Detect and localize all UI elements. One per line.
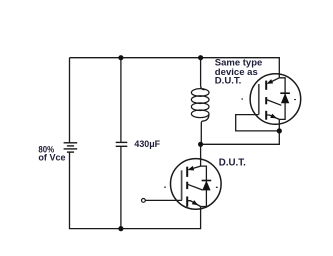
svg-text:of Vce: of Vce [38, 153, 65, 163]
svg-text:430μF: 430μF [134, 139, 160, 149]
svg-text:D.U.T.: D.U.T. [219, 157, 246, 169]
svg-text:D.U.T.: D.U.T. [215, 76, 242, 86]
